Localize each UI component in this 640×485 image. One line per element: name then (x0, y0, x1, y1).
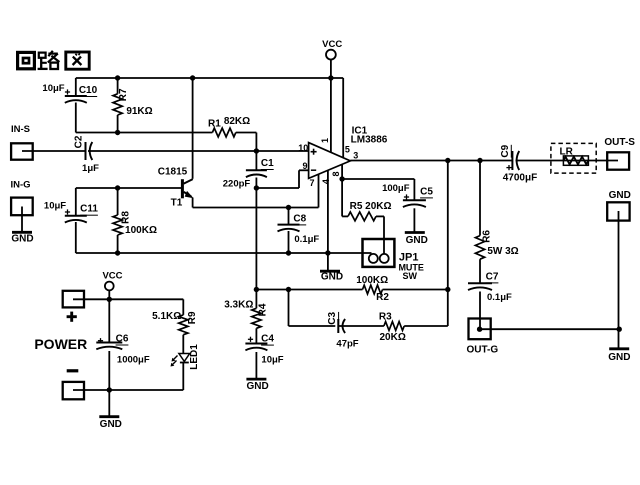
svg-text:1μF: 1μF (82, 163, 99, 174)
svg-text:10μF: 10μF (42, 83, 64, 94)
svg-text:GND: GND (609, 190, 631, 201)
svg-text:C9: C9 (500, 144, 511, 157)
svg-text:3: 3 (353, 151, 358, 161)
svg-text:10μF: 10μF (44, 201, 66, 212)
svg-text:R9: R9 (187, 311, 198, 324)
svg-text:OUT-G: OUT-G (466, 344, 498, 355)
svg-text:GND: GND (246, 381, 268, 392)
svg-text:9: 9 (302, 161, 307, 171)
svg-text:C1: C1 (261, 158, 274, 169)
svg-text:C2: C2 (74, 135, 85, 148)
svg-text:C10: C10 (79, 85, 98, 96)
svg-text:C1815: C1815 (158, 166, 188, 177)
svg-text:LR: LR (560, 147, 574, 158)
svg-text:10: 10 (298, 143, 308, 153)
svg-text:GND: GND (100, 419, 122, 430)
svg-text:8: 8 (331, 171, 341, 176)
svg-text:5.1KΩ: 5.1KΩ (152, 311, 181, 322)
svg-text:GND: GND (608, 352, 630, 363)
svg-text:R5 20KΩ: R5 20KΩ (350, 201, 392, 212)
svg-text:5: 5 (345, 145, 350, 155)
svg-text:C8: C8 (293, 213, 306, 224)
svg-text:3.3KΩ: 3.3KΩ (224, 300, 253, 311)
svg-text:R8: R8 (121, 211, 132, 224)
svg-text:SW: SW (402, 271, 417, 281)
svg-text:100μF: 100μF (382, 183, 410, 194)
svg-text:0.1μF: 0.1μF (487, 292, 512, 303)
svg-text:C11: C11 (80, 204, 98, 215)
svg-text:47pF: 47pF (336, 339, 358, 350)
svg-text:R4: R4 (258, 303, 269, 316)
svg-text:VCC: VCC (102, 270, 122, 281)
svg-text:10μF: 10μF (261, 355, 283, 366)
svg-text:100KΩ: 100KΩ (125, 225, 157, 236)
svg-text:GND: GND (11, 234, 33, 245)
svg-text:POWER: POWER (34, 336, 87, 352)
svg-text:4700μF: 4700μF (503, 172, 537, 183)
svg-text:1000μF: 1000μF (117, 355, 150, 366)
svg-text:C6: C6 (116, 334, 129, 345)
svg-text:5W 3Ω: 5W 3Ω (487, 246, 518, 257)
svg-text:82KΩ: 82KΩ (224, 116, 250, 127)
svg-text:R3: R3 (379, 312, 392, 323)
svg-text:C5: C5 (420, 186, 433, 197)
svg-text:IN-G: IN-G (10, 180, 30, 191)
svg-text:91KΩ: 91KΩ (126, 106, 152, 117)
svg-text:C7: C7 (486, 271, 499, 282)
svg-text:T1: T1 (171, 197, 183, 208)
svg-text:20KΩ: 20KΩ (380, 332, 406, 343)
svg-text:R7: R7 (118, 88, 129, 101)
svg-text:IN-S: IN-S (11, 124, 30, 135)
svg-text:R1: R1 (208, 119, 221, 130)
svg-text:1: 1 (320, 138, 330, 143)
svg-text:4: 4 (321, 179, 331, 184)
svg-text:OUT-S: OUT-S (604, 137, 635, 148)
svg-text:GND: GND (321, 272, 343, 283)
svg-text:7: 7 (309, 178, 314, 188)
svg-text:C3: C3 (327, 311, 338, 324)
svg-text:LED1: LED1 (189, 344, 200, 370)
svg-text:LM3886: LM3886 (351, 135, 388, 146)
svg-text:GND: GND (406, 235, 428, 246)
svg-text:0.1μF: 0.1μF (294, 234, 319, 245)
svg-text:VCC: VCC (322, 39, 342, 50)
svg-text:100KΩ: 100KΩ (356, 275, 388, 286)
svg-text:R6: R6 (481, 230, 492, 243)
svg-text:C4: C4 (261, 334, 274, 345)
svg-text:R2: R2 (376, 292, 389, 303)
svg-text:220pF: 220pF (223, 179, 251, 190)
